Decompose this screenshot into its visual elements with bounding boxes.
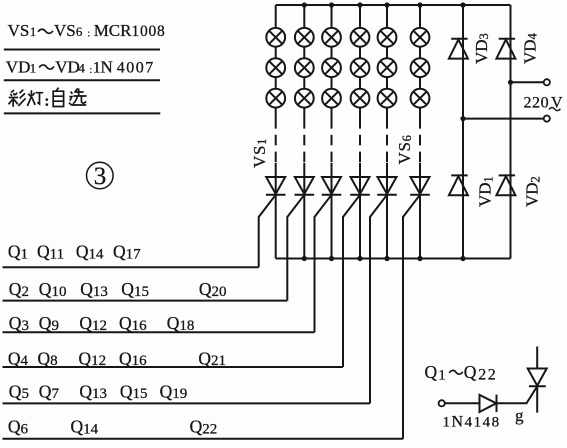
label Q1~Q22 (425, 362, 498, 384)
lamp column 5 row 2 (378, 58, 397, 77)
wire column 6 below lamps (419, 108, 421, 118)
label CJK cai(彩) (9, 90, 26, 107)
wire row 2 trigger line (3, 300, 288, 302)
wire column 2 top (bus to lamp) (303, 5, 305, 28)
label VS6 (rotated) (395, 134, 414, 164)
label VD1~VD4:1N4007 (6, 58, 155, 77)
lamp column 2 row 1 (295, 28, 314, 47)
wire column 6 top (bus to lamp) (419, 5, 421, 28)
svg-text:VD: VD (6, 58, 31, 77)
svg-text:22: 22 (478, 367, 497, 384)
node dots on bottom bus (302, 256, 466, 261)
rule under line 1 (4, 49, 160, 51)
lamp column 3 row 3 (322, 89, 341, 108)
wire column 2 anode into SCR and cathode to bus (303, 163, 305, 259)
wire column 4 anode into SCR and cathode to bus (359, 163, 361, 259)
thyristor VS1 (266, 177, 286, 195)
wire between lamps column 4 (359, 77, 361, 89)
diode VD3 (449, 39, 468, 59)
node dots on top bus (302, 2, 466, 7)
lamp column 3 row 1 (322, 28, 341, 47)
wire column 5 anode into SCR and cathode to bus (386, 163, 388, 259)
wire row 5 trigger line (3, 402, 371, 404)
wire column 5 top (bus to lamp) (386, 5, 388, 28)
tilde line 2 (39, 65, 54, 69)
svg-text:3: 3 (94, 163, 107, 190)
label 1N4148 (443, 406, 525, 431)
wire between lamps column 3 (331, 47, 333, 59)
dashed wire column 4 (359, 118, 361, 163)
lamp column 2 row 2 (295, 58, 314, 77)
wire column 1 below lamps (275, 108, 277, 118)
wire between lamps column 2 (303, 47, 305, 59)
svg-text:V: V (551, 95, 563, 112)
lamp column 6 row 2 (411, 58, 430, 77)
wire column 1 anode into SCR and cathode to bus (275, 163, 277, 259)
wire between lamps column 3 (331, 77, 333, 89)
thyristor VS3 (322, 177, 342, 195)
circled figure number 3 (87, 162, 114, 189)
svg-text:6: 6 (76, 24, 83, 39)
svg-text:VS: VS (8, 21, 30, 40)
wire between lamps column 5 (386, 47, 388, 59)
lamp column 5 row 3 (378, 89, 397, 108)
gate wire of VS1 to row 1 (259, 195, 276, 267)
left rail wire (VD3/VD1) (462, 5, 464, 259)
wire between lamps column 5 (386, 77, 388, 89)
lamp column 4 row 1 (351, 28, 370, 47)
wire AC terminal upper (511, 81, 544, 83)
thyristor VS6 (410, 177, 430, 195)
wire between lamps column 1 (275, 77, 277, 89)
lamp column 4 row 3 (351, 89, 370, 108)
wire row 3 trigger line (3, 331, 315, 333)
lamp column 6 row 3 (411, 89, 430, 108)
wire column 3 top (bus to lamp) (331, 5, 333, 28)
svg-text:4007: 4007 (117, 60, 155, 77)
AC tilde under V of 220V (549, 108, 560, 111)
dashed wire column 3 (331, 118, 333, 163)
gate wire of VS6 to row 6 (403, 195, 420, 439)
gate wire of VS5 to row 5 (370, 195, 387, 404)
wire from terminal to diode (445, 402, 480, 404)
rule under line 3 (4, 112, 161, 114)
lamp column 2 row 3 (295, 89, 314, 108)
lamp column 1 row 1 (266, 28, 285, 47)
svg-text::: : (89, 64, 92, 76)
wire between lamps column 4 (359, 47, 361, 59)
svg-text:Q: Q (425, 362, 438, 382)
gate wire of VS2 to row 2 (287, 195, 304, 301)
wire diode to gate bend (496, 386, 537, 403)
svg-text:1N4148: 1N4148 (443, 414, 501, 431)
gate wire of VS4 to row 4 (343, 195, 360, 367)
lamp column 6 row 1 (411, 28, 430, 47)
wire column 1 top (bus to lamp) (275, 5, 277, 28)
svg-text:MCR: MCR (94, 21, 132, 40)
label CJK deng(灯) (27, 90, 43, 106)
svg-text:4: 4 (78, 61, 85, 76)
wire row 6 trigger line (3, 438, 404, 440)
node dot upper terminal (508, 80, 513, 85)
lamp column 1 row 2 (266, 58, 285, 77)
wire between lamps column 6 (419, 47, 421, 59)
diode VD1 (449, 175, 468, 195)
wire column 2 below lamps (303, 108, 305, 118)
svg-text:1: 1 (30, 24, 37, 39)
wire column 6 anode into SCR and cathode to bus (419, 163, 421, 259)
tilde in Q1~Q22 (449, 370, 462, 374)
wire between lamps column 1 (275, 47, 277, 59)
svg-text:1: 1 (438, 368, 446, 384)
svg-text:VD: VD (55, 58, 80, 77)
wire between lamps column 6 (419, 77, 421, 89)
label 220V (524, 95, 564, 112)
svg-text:VS: VS (54, 21, 76, 40)
diode VD2 (496, 175, 515, 195)
thyristor demo symbol (528, 347, 547, 413)
tilde line 1 (38, 29, 53, 33)
wire between lamps column 2 (303, 77, 305, 89)
lamp column 4 row 2 (351, 58, 370, 77)
dashed wire column 1 (275, 118, 277, 163)
top bus wire (276, 4, 511, 6)
svg-text:g: g (515, 406, 524, 425)
dashed wire column 6 (419, 118, 421, 163)
svg-text:1: 1 (30, 61, 36, 76)
label CJK zi(自) (53, 88, 63, 107)
lamp column 5 row 1 (378, 28, 397, 47)
label CJK xuan(选) (69, 88, 87, 105)
wire column 3 below lamps (331, 108, 333, 118)
svg-text::: : (87, 28, 90, 40)
svg-text:220: 220 (524, 95, 550, 112)
label VS1~VS6:MCR1008 (8, 21, 166, 40)
dashed wire column 5 (386, 118, 388, 163)
svg-text:Q: Q (464, 362, 477, 382)
right rail wire (VD4/VD2) (510, 5, 512, 259)
lamp column 1 row 3 (266, 89, 285, 108)
wire column 4 below lamps (359, 108, 361, 118)
bottom bus wire (276, 258, 511, 260)
diode 1N4148 (480, 395, 497, 412)
wire row 1 trigger line (3, 266, 259, 268)
thyristor VS5 (377, 177, 397, 195)
wire column 4 top (bus to lamp) (359, 5, 361, 28)
svg-text:1: 1 (93, 60, 101, 77)
label CJK colon (46, 98, 49, 106)
wire AC terminal lower (463, 118, 544, 120)
terminal circle demo (439, 400, 445, 406)
svg-text:N: N (101, 58, 113, 77)
node dot lower terminal (460, 116, 465, 121)
diode VD4 (496, 39, 515, 59)
thyristor VS2 (295, 177, 315, 195)
wire row 4 trigger line (3, 366, 344, 368)
gate wire of VS3 to row 3 (315, 195, 332, 332)
wire column 3 anode into SCR and cathode to bus (331, 163, 333, 259)
dashed wire column 2 (303, 118, 305, 163)
wire column 5 below lamps (386, 108, 388, 118)
lamp column 3 row 2 (322, 58, 341, 77)
rule under line 2 (4, 79, 160, 81)
thyristor VS4 (350, 177, 370, 195)
svg-text:1008: 1008 (132, 23, 166, 40)
label VS1 (rotated) (250, 138, 269, 168)
